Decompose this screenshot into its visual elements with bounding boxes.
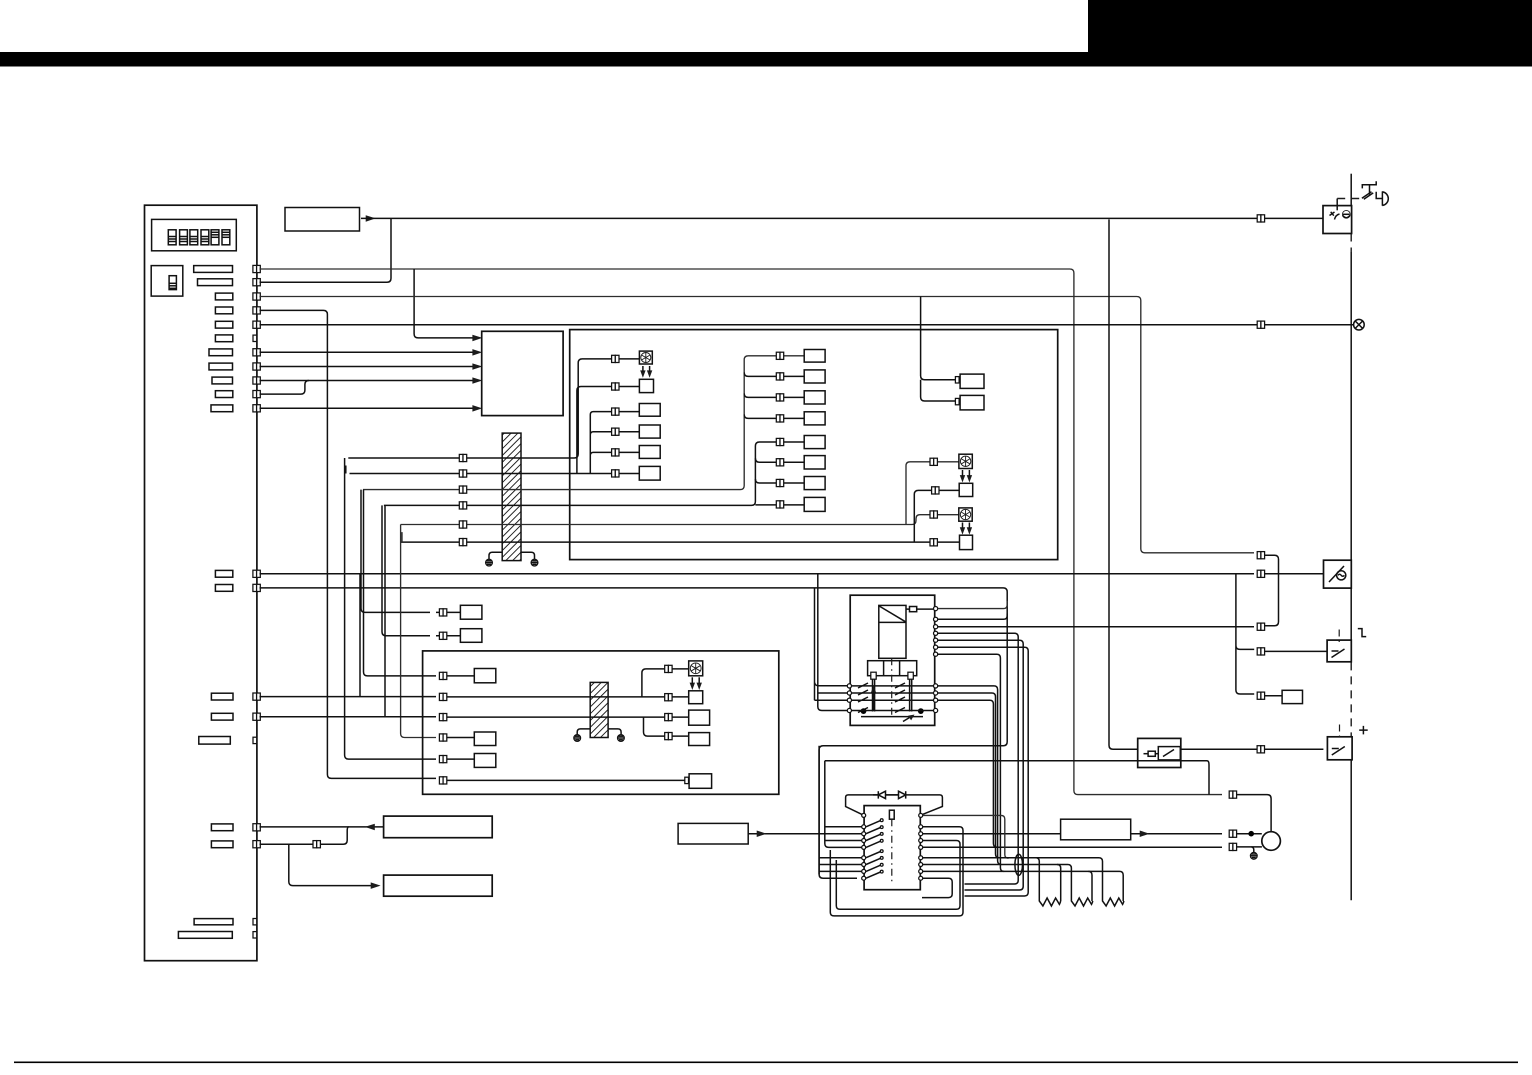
interface box 1 [384, 816, 493, 838]
wire w6: to square-I / square-II [401, 490, 960, 542]
wire pin1 (y269) long [260, 269, 1223, 795]
wire w3 (gray): long to right group [363, 356, 804, 490]
main power switch box [1323, 206, 1352, 234]
rows down to selector loops [938, 633, 1019, 884]
sensor rects r1-r4 [639, 404, 660, 417]
vertical x1109 from RC line to magnetic relay [1109, 219, 1138, 749]
vertical v-361: wireA to box above lower [361, 490, 430, 613]
right bus [1350, 174, 1352, 205]
component square under fan1 [639, 379, 653, 392]
wires pins 7-11 into RC box [260, 351, 478, 353]
contactor coil box with diagonal [879, 605, 906, 658]
vertical v-363.5: w3 to lower pin1 wire [364, 490, 437, 676]
wire B (CN-B) [260, 588, 1008, 602]
wire pin4 down [260, 310, 437, 778]
selector fuse [889, 810, 894, 819]
left feeds rows 2-4 [815, 574, 848, 711]
motor feed horizontal continues from x1074 vertical [1229, 791, 1233, 798]
step symbol [1358, 629, 1366, 637]
selector box [864, 806, 920, 890]
selector terminals and levers [862, 813, 866, 817]
fuse inside relay [1148, 751, 1155, 756]
wire 737.5 to rect left-col [439, 734, 443, 741]
fan-I symbol [959, 454, 972, 468]
vertical x1007 down to contactor row1 right / A-path [819, 602, 1007, 878]
wire w4: long to right group lower [384, 442, 804, 505]
diodes [873, 794, 905, 796]
wire: RC to wired remote (y 218.4) [366, 216, 374, 221]
ground left of shield1 [489, 552, 502, 559]
remote controller label box [285, 208, 360, 232]
bottom rule [14, 1062, 1518, 1064]
branch pin1 wire down into RC box input 1 [414, 269, 478, 338]
shielded cable bundle 2 (hatched) [590, 682, 608, 737]
louver switch box [1327, 640, 1351, 662]
moving bar [861, 716, 923, 718]
terminal labels and connector pins CN1 group [194, 266, 233, 273]
right group branches r5-r8 top [744, 372, 804, 418]
fan-II symbol [959, 508, 972, 521]
wire w2 branch: vertical to sensor rects r1-r3 [590, 412, 639, 474]
wire pin3 (y296.5) long [260, 297, 1255, 553]
selector row 815 to heaters [923, 815, 1009, 858]
wireA branch down x1236 [1236, 574, 1254, 694]
selector link line [891, 819, 893, 883]
service lamp [1354, 319, 1365, 330]
contact ticks [858, 683, 868, 688]
row to fan-unit bracket (long) [938, 626, 1254, 628]
lower box pin wires [439, 672, 443, 679]
label box L2 [1061, 819, 1131, 840]
contactor internal row wires + terminals [852, 685, 934, 687]
square-L [689, 691, 703, 704]
wire pin 844 with inline pin [260, 827, 349, 844]
connector pins bottom group [211, 824, 233, 831]
compressor unit box [423, 651, 779, 794]
contact block [868, 661, 917, 676]
wire A (CN-A) long [260, 573, 1255, 575]
heater feed wires [861, 857, 921, 859]
rows down to heater/motor wires [938, 654, 1004, 871]
shielded cable bundle 1 (hatched) [502, 433, 521, 560]
selector right loops [830, 827, 963, 916]
junction dots on bottom row [861, 708, 867, 714]
top-right black title block [1088, 0, 1532, 53]
branch pin3 wire down to sensor boxes [921, 297, 961, 402]
right group rect components [804, 350, 825, 363]
vertical v-344 (w1/w2) to lower pin5 wire [345, 458, 436, 759]
label box L1 (power source note) [678, 823, 748, 844]
vertical v-382: w4 to box2 above lower [382, 505, 430, 635]
branch down to interface box 2 [289, 844, 372, 885]
diode bridge loop [846, 795, 943, 815]
motor lower wire with ground [923, 846, 1262, 848]
receiver/display unit box [482, 331, 563, 415]
wire w5 (gray): to fan-I / fan-II [401, 515, 959, 525]
row 878 short loop [922, 878, 952, 897]
selector left feeds [825, 761, 862, 848]
square-II [960, 535, 973, 549]
outdoor unit box [570, 330, 1058, 560]
wire 717.1 to rect-L3 / branch rect-L4 [260, 717, 689, 736]
wire pin 827 to interface box 1 [260, 826, 384, 828]
cable bundle ellipse [1015, 854, 1023, 875]
relay return wire under box [825, 760, 1207, 762]
connector pins CN-A/CN-B [215, 570, 232, 577]
junction dot [1248, 831, 1254, 837]
wire pin5 to service lamp [260, 324, 1354, 326]
plunger 1 [871, 672, 876, 679]
wire 780.4 long bottom [439, 777, 443, 784]
fan unit box (ceiling fan) [1324, 560, 1352, 588]
vertical v-400: w5/w6 to lower pin4 wire [401, 525, 436, 738]
contactor outer box [850, 595, 935, 725]
ground right of shield1 [521, 552, 535, 559]
junction up to relay return [1207, 761, 1209, 795]
wire 696.9 to fan-L and square-L [260, 669, 689, 697]
coil terminal component [910, 607, 917, 612]
dashed link to pull switch [1336, 199, 1338, 211]
main control unit box [145, 205, 257, 961]
fan-L symbol [689, 661, 703, 676]
vertical v-360: wireA junction down to wire 696.9 [359, 574, 361, 697]
motor M [1262, 832, 1281, 851]
switch contact inside [1330, 212, 1335, 216]
vertical v-385: to wire 716.7 [384, 505, 386, 716]
wire B branch down to contactor [815, 588, 848, 700]
wire 759.1 to rect left-col [439, 756, 443, 763]
relay contact box [1158, 747, 1180, 760]
connector pins mid group [211, 693, 233, 700]
aux switch box [1327, 737, 1352, 760]
wire/junction from pin2 up to RC line [260, 218, 392, 282]
DIP switch bank S1 [152, 219, 237, 250]
plunger 2 travel arrow [903, 716, 912, 722]
plunger 2 [908, 672, 913, 679]
bracket joining pins to fan unit [1265, 555, 1324, 626]
header black bar [0, 52, 1532, 67]
wire w2: to compressor components [350, 387, 640, 474]
interface box 2 [384, 875, 493, 896]
pull-cord switch symbol [1362, 192, 1373, 200]
thermistor boxes above compressor box [436, 611, 460, 613]
magnetic relay box [1138, 738, 1181, 767]
contactor right-side wires going up to B [938, 602, 1008, 609]
heater elements (zigzag) [1039, 897, 1060, 906]
slide switch S2 [151, 266, 183, 297]
square-I [959, 483, 973, 496]
wire w1: to fan1 [348, 359, 639, 458]
contactor dash link [891, 658, 893, 716]
relay output to aux switch [1181, 748, 1324, 750]
plus mark [1359, 726, 1368, 735]
fan1 symbol [639, 351, 652, 364]
